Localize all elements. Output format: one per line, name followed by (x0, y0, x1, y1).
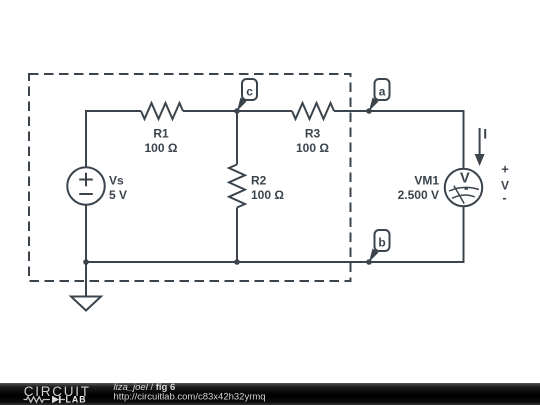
wire VM1 bottom vertical (463, 206, 465, 263)
wire node c to R2 (236, 111, 238, 165)
node b callout (369, 230, 390, 262)
svg-text:100 Ω: 100 Ω (296, 141, 329, 155)
svg-text:2.500 V: 2.500 V (398, 188, 439, 202)
dashed boundary box (29, 74, 351, 281)
svg-text:Vs: Vs (109, 174, 124, 188)
svg-text:c: c (246, 85, 253, 99)
current arrow I (475, 128, 485, 166)
junction dot R2 bottom (234, 259, 240, 265)
CircuitLab logo diode (52, 396, 65, 403)
wire bottom horizontal (85, 261, 465, 263)
svg-text:R1: R1 (153, 127, 169, 141)
ground (71, 297, 101, 311)
svg-text:V: V (460, 170, 470, 186)
node a junction (366, 108, 372, 114)
wire R3 to node a (334, 110, 369, 112)
wire R1 to node c (183, 110, 237, 112)
svg-text:VM1: VM1 (414, 174, 439, 188)
junction dot ground tap (83, 259, 89, 265)
wire Vs top vertical (85, 111, 87, 167)
wire Vs bottom vertical (85, 205, 87, 297)
svg-text:a: a (379, 85, 386, 99)
svg-text:b: b (378, 236, 385, 250)
svg-text:I: I (483, 126, 487, 142)
svg-text:+: + (501, 161, 509, 176)
wire R2 bottom (236, 208, 238, 263)
svg-text:R3: R3 (305, 127, 321, 141)
CircuitLab logo resistor squiggle (24, 397, 51, 402)
resistor R1 (141, 103, 183, 119)
svg-text:R2: R2 (251, 174, 267, 188)
node c callout (237, 79, 257, 111)
resistor R3 (292, 103, 334, 119)
wire node c to R3 (237, 110, 292, 112)
node a callout (369, 79, 390, 111)
resistor R2 (229, 165, 245, 208)
node b junction (366, 259, 372, 265)
wire top-left horizontal (85, 110, 141, 112)
svg-text:100 Ω: 100 Ω (251, 188, 284, 202)
svg-text:http://circuitlab.com/c83x42h3: http://circuitlab.com/c83x42h32yrmq (114, 392, 266, 403)
node c junction (234, 108, 240, 114)
svg-text:100 Ω: 100 Ω (145, 141, 178, 155)
svg-text:LAB: LAB (66, 395, 87, 405)
svg-text:-: - (502, 190, 506, 205)
voltmeter VM1 (445, 169, 483, 207)
wire node a to top-right corner and down (369, 111, 464, 169)
svg-text:5 V: 5 V (109, 188, 127, 202)
voltage source Vs (67, 167, 105, 205)
footer bar (0, 383, 540, 405)
